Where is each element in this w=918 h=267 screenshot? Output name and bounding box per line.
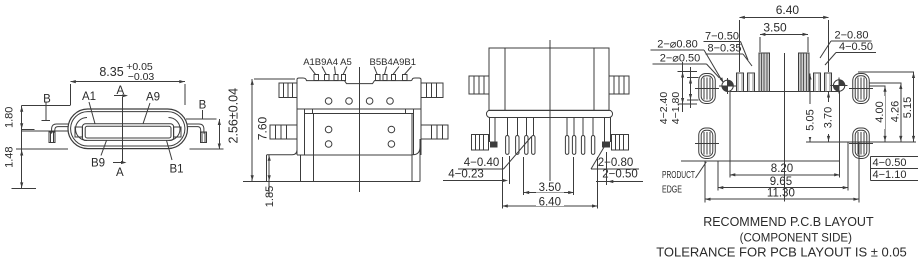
svg-text:B: B: [199, 100, 207, 112]
svg-text:8.20: 8.20: [771, 163, 793, 175]
svg-text:RECOMMEND P.C.B LAYOUT: RECOMMEND P.C.B LAYOUT: [703, 215, 874, 229]
svg-text:3.70: 3.70: [823, 107, 835, 128]
svg-text:8.35: 8.35: [99, 65, 123, 79]
svg-text:3.50: 3.50: [763, 21, 787, 35]
svg-text:6.40: 6.40: [539, 197, 561, 209]
svg-text:6.40: 6.40: [776, 3, 800, 17]
svg-text:A: A: [116, 85, 124, 97]
svg-text:2.56±0.04: 2.56±0.04: [227, 88, 241, 144]
svg-text:2−0.80: 2−0.80: [598, 157, 634, 169]
svg-text:−0.03: −0.03: [128, 71, 155, 83]
svg-text:4.00: 4.00: [874, 101, 886, 122]
svg-text:9.65: 9.65: [770, 176, 792, 188]
svg-text:1.48: 1.48: [4, 146, 16, 167]
svg-text:4−2.40: 4−2.40: [658, 92, 670, 125]
svg-text:4−0.40: 4−0.40: [464, 157, 500, 169]
svg-text:B: B: [43, 93, 51, 105]
svg-text:7.60: 7.60: [256, 116, 270, 140]
svg-text:B9: B9: [91, 158, 105, 170]
svg-text:3.50: 3.50: [539, 182, 561, 194]
svg-text:B5B4A9B1: B5B4A9B1: [370, 57, 416, 68]
svg-text:TOLERANCE FOR PCB LAYOUT IS ±: TOLERANCE FOR PCB LAYOUT IS ± 0.05: [656, 245, 907, 260]
svg-text:8−0.35: 8−0.35: [708, 43, 742, 55]
svg-text:4−1.80: 4−1.80: [670, 92, 682, 125]
svg-text:2−0.50: 2−0.50: [602, 169, 638, 181]
svg-text:4−0.50: 4−0.50: [873, 157, 907, 169]
svg-text:A1: A1: [82, 91, 96, 103]
svg-text:2−0.80: 2−0.80: [835, 30, 869, 42]
svg-text:2−⌀0.50: 2−⌀0.50: [660, 53, 701, 65]
svg-text:5.05: 5.05: [805, 109, 817, 130]
svg-text:(COMPONENT SIDE): (COMPONENT SIDE): [740, 233, 852, 245]
svg-text:EDGE: EDGE: [662, 184, 682, 196]
svg-text:4.26: 4.26: [890, 101, 902, 122]
svg-text:7−0.50: 7−0.50: [705, 30, 739, 42]
svg-text:A9: A9: [146, 92, 160, 104]
svg-text:4−0.23: 4−0.23: [448, 169, 484, 181]
svg-text:11.30: 11.30: [767, 188, 795, 200]
svg-text:1.85: 1.85: [264, 186, 276, 207]
svg-text:4−0.50: 4−0.50: [839, 41, 873, 53]
svg-text:A: A: [116, 167, 124, 179]
svg-text:4−1.10: 4−1.10: [873, 169, 907, 181]
svg-text:B1: B1: [169, 164, 183, 176]
svg-text:5.15: 5.15: [902, 97, 914, 118]
svg-text:PRODUCT: PRODUCT: [662, 169, 695, 181]
svg-text:A1B9A4 A5: A1B9A4 A5: [303, 57, 352, 68]
svg-text:2−⌀0.80: 2−⌀0.80: [657, 39, 698, 51]
svg-text:1.80: 1.80: [4, 107, 16, 128]
